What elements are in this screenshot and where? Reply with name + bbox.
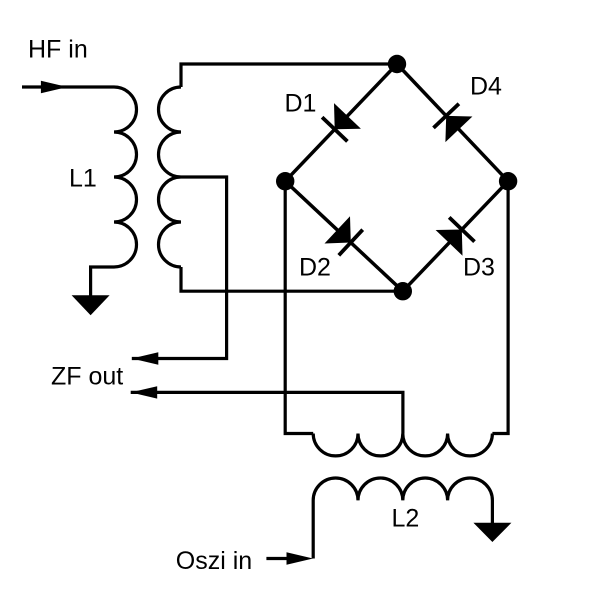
diode D1 <box>322 103 361 141</box>
svg-text:D2: D2 <box>299 254 331 282</box>
wire secondary bottom lead to node C <box>181 267 403 291</box>
wire secondary center tap to ZF out <box>132 177 227 359</box>
inductor output transformer upper winding <box>313 434 492 456</box>
svg-text:HF in: HF in <box>28 36 88 64</box>
node D (right) <box>499 172 517 190</box>
diode D2 <box>325 216 363 255</box>
svg-text:D1: D1 <box>285 90 317 118</box>
arrowhead Oszi in <box>287 552 314 564</box>
wire node B down to output winding <box>285 181 313 433</box>
wire ZF out lower to L2 center tap <box>131 392 403 433</box>
wire ring edge node D to node A (D4 branch) <box>397 64 508 181</box>
inductor L2 <box>313 478 492 559</box>
svg-text:ZF out: ZF out <box>51 363 123 391</box>
wire ring edge node B to node C (D2 branch) <box>285 181 403 291</box>
inductor T1 secondary winding <box>159 87 181 267</box>
wire HF input <box>22 85 114 88</box>
svg-text:Oszi in: Oszi in <box>176 547 252 575</box>
svg-text:D3: D3 <box>463 254 495 282</box>
wire Oszi in lead <box>266 557 290 560</box>
diode D4 <box>434 104 473 142</box>
node A (top) <box>388 55 406 73</box>
node B (left) <box>276 172 294 190</box>
wire secondary top lead to node A <box>181 64 397 87</box>
wire L1 bottom to ground <box>91 267 114 296</box>
node C (bottom) <box>394 282 412 300</box>
arrowhead ZF out upper <box>132 352 159 364</box>
svg-text:L1: L1 <box>69 165 97 193</box>
ground (L2) <box>473 523 511 542</box>
inductor L1 (primary winding) <box>114 87 137 267</box>
diode D3 <box>436 217 475 255</box>
wire ring edge node A to node B (D1 branch) <box>285 64 397 181</box>
arrowhead HF in <box>41 81 68 93</box>
svg-text:D4: D4 <box>470 72 502 100</box>
ground (L1) <box>72 295 110 315</box>
wire output winding to node D <box>492 181 508 433</box>
arrowhead ZF out lower <box>131 386 158 398</box>
svg-text:L2: L2 <box>392 505 420 533</box>
wire ring edge node C to node D (D3 branch) <box>403 181 508 291</box>
